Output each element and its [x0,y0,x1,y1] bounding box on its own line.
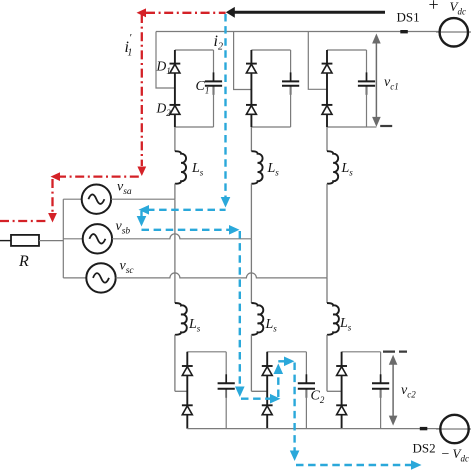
svg-text:R: R [18,253,29,270]
svg-text:DS2: DS2 [413,441,436,456]
svg-text:+: + [429,0,439,15]
svg-text:−: − [442,447,450,462]
svg-text:DS1: DS1 [397,10,420,25]
